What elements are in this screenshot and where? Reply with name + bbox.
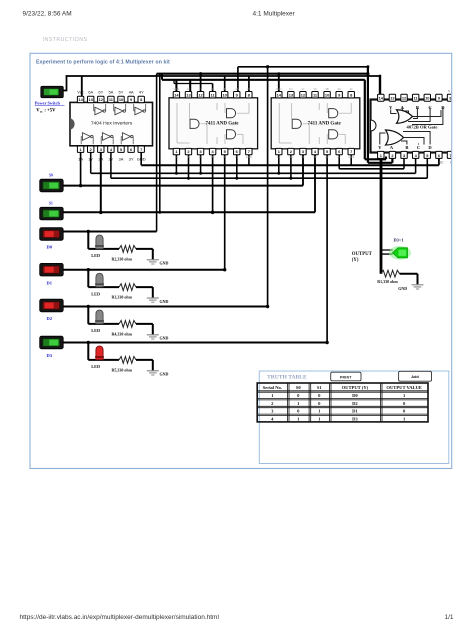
svg-text:9/23/22, 8:56 AM: 9/23/22, 8:56 AM [23, 10, 72, 17]
svg-text:INSTRUCTIONS: INSTRUCTIONS [43, 37, 88, 43]
svg-text:3Y: 3Y [247, 87, 250, 91]
svg-text:VCC: VCC [276, 87, 282, 91]
svg-text:7: 7 [140, 147, 142, 152]
svg-text:1B: 1B [289, 155, 292, 159]
svg-text:LED: LED [91, 253, 100, 258]
svg-text:Power Switch: Power Switch [35, 101, 61, 106]
svg-text:D0: D0 [47, 245, 53, 250]
svg-text:2Y: 2Y [108, 157, 113, 162]
svg-text:GND: GND [348, 155, 354, 159]
svg-text:2B: 2B [211, 155, 214, 159]
svg-text:GND: GND [160, 336, 169, 341]
svg-text:10: 10 [425, 96, 429, 101]
svg-text:S1: S1 [317, 385, 323, 390]
svg-text:OUTPUT VALUE: OUTPUT VALUE [386, 385, 422, 390]
svg-text:NC: NC [439, 161, 444, 165]
svg-text:4:1 Multiplexer: 4:1 Multiplexer [253, 10, 296, 17]
svg-text:D1: D1 [47, 280, 53, 285]
svg-text:1A: 1A [175, 155, 178, 159]
svg-text:S0: S0 [49, 174, 53, 178]
svg-text:7: 7 [350, 149, 352, 154]
svg-text:D2: D2 [352, 401, 358, 406]
svg-text:TRUTH TABLE: TRUTH TABLE [267, 375, 307, 381]
svg-text:R1,330 ohm: R1,330 ohm [377, 279, 398, 284]
svg-text:7404 Hex Inverters: 7404 Hex Inverters [91, 121, 133, 127]
svg-text:3Y: 3Y [350, 87, 353, 91]
svg-text:S0: S0 [296, 385, 302, 390]
svg-text:LED: LED [91, 328, 100, 333]
svg-text:1Y: 1Y [88, 157, 93, 162]
svg-text:GND: GND [398, 286, 407, 291]
svg-text:N: N [448, 89, 450, 93]
svg-text:4Y: 4Y [139, 90, 144, 95]
svg-text:2B: 2B [313, 155, 316, 159]
svg-text:2A: 2A [199, 155, 202, 159]
svg-text:3C: 3C [211, 87, 214, 91]
svg-text:2Y: 2Y [235, 155, 238, 159]
svg-text:2A: 2A [98, 157, 103, 162]
svg-text:3C: 3C [313, 87, 316, 91]
svg-text:Add: Add [411, 374, 419, 379]
svg-text:GND: GND [160, 372, 169, 377]
svg-text:LED: LED [91, 364, 100, 369]
svg-text:2C: 2C [325, 155, 328, 159]
svg-text:R5,330 ohm: R5,330 ohm [112, 367, 133, 372]
svg-text:GND: GND [160, 261, 169, 266]
svg-text:1C: 1C [187, 87, 190, 91]
svg-text:OUTPUT: OUTPUT [352, 252, 373, 257]
svg-text:3B: 3B [325, 87, 328, 91]
svg-text:4072B OR Gate: 4072B OR Gate [407, 125, 438, 130]
svg-text:1Y: 1Y [199, 87, 202, 91]
svg-text:R3,330 ohm: R3,330 ohm [112, 295, 133, 300]
svg-text:OUTPUT (Y): OUTPUT (Y) [342, 385, 369, 390]
svg-text:10: 10 [119, 97, 123, 102]
svg-text:7411 AND Gate: 7411 AND Gate [205, 122, 239, 127]
svg-text:Vcc: Vcc [77, 90, 84, 95]
svg-text:5A: 5A [108, 90, 113, 95]
svg-text:1A: 1A [78, 157, 83, 162]
svg-text:C: C [417, 145, 420, 150]
svg-text:VCC: VCC [174, 87, 180, 91]
svg-text:B: B [405, 145, 408, 150]
svg-text:LED: LED [91, 291, 100, 296]
svg-text:1A: 1A [277, 155, 280, 159]
svg-text:1/1: 1/1 [445, 614, 454, 621]
svg-text:GND: GND [246, 155, 252, 159]
svg-text:3A: 3A [119, 157, 124, 162]
svg-text:3A: 3A [338, 87, 341, 91]
svg-text:2Y: 2Y [338, 155, 341, 159]
svg-text:: +5V: : +5V [44, 108, 56, 113]
svg-text:D3: D3 [47, 353, 53, 358]
svg-text:3Y: 3Y [129, 157, 134, 162]
svg-text:5Y: 5Y [119, 90, 124, 95]
svg-text:D1: D1 [352, 409, 358, 414]
svg-text:D2: D2 [47, 316, 53, 321]
svg-text:2C: 2C [223, 155, 226, 159]
svg-text:https://de-iitr.vlabs.ac.in/ex: https://de-iitr.vlabs.ac.in/exp/multiple… [20, 614, 220, 621]
svg-text:2A: 2A [301, 155, 304, 159]
svg-text:Experiment to perform logic of: Experiment to perform logic of 4:1 Multi… [36, 60, 170, 66]
svg-text:R2,330 ohm: R2,330 ohm [112, 256, 133, 261]
svg-text:1B: 1B [187, 155, 190, 159]
svg-text:10: 10 [325, 92, 329, 97]
svg-text:R4,330 ohm: R4,330 ohm [112, 331, 133, 336]
svg-text:4A: 4A [129, 90, 134, 95]
svg-text:S1: S1 [49, 202, 53, 206]
svg-text:(Y): (Y) [352, 258, 359, 263]
svg-text:GND: GND [137, 157, 146, 162]
svg-text:PRINT: PRINT [340, 375, 352, 379]
svg-text:7: 7 [248, 149, 250, 154]
svg-text:Serial No.: Serial No. [263, 385, 282, 390]
svg-text:D3=1: D3=1 [394, 238, 404, 243]
svg-text:7411 AND Gate: 7411 AND Gate [308, 122, 342, 127]
svg-text:6A: 6A [88, 90, 93, 95]
svg-text:D3: D3 [352, 416, 358, 421]
svg-text:10: 10 [223, 92, 227, 97]
svg-text:GND: GND [160, 299, 169, 304]
svg-text:1Y: 1Y [301, 87, 304, 91]
svg-text:3B: 3B [223, 87, 226, 91]
svg-text:6Y: 6Y [98, 90, 103, 95]
svg-text:D0: D0 [352, 393, 358, 398]
svg-text:1C: 1C [289, 87, 292, 91]
svg-text:3A: 3A [235, 87, 238, 91]
